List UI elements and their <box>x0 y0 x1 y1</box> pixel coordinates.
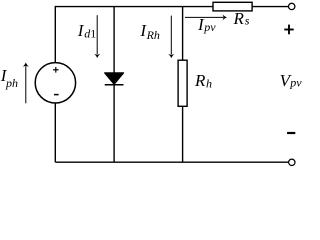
svg-text:ph: ph <box>5 76 18 90</box>
svg-text:pv: pv <box>203 20 216 34</box>
resistor Rs box <box>213 2 252 11</box>
svg-text:R: R <box>233 9 245 28</box>
svg-text:R: R <box>194 71 206 90</box>
wire Rh branch below box <box>182 106 184 162</box>
plus sign inside source <box>53 67 59 73</box>
label Ipv <box>197 15 216 34</box>
label Iph <box>0 66 18 90</box>
current source Iph circle <box>35 63 75 103</box>
diode D1 cathode bar <box>105 84 124 86</box>
resistor Rh box <box>178 60 187 106</box>
wire left vertical below source <box>54 103 56 162</box>
arrow Iph head <box>23 62 30 66</box>
terminal top-right <box>289 3 295 9</box>
svg-text:h: h <box>206 76 212 90</box>
svg-text:pv: pv <box>289 76 302 90</box>
arrow IRh head <box>168 54 175 58</box>
wire from Rs to top-right terminal <box>252 6 288 8</box>
label Rs <box>233 9 250 28</box>
plus sign output terminal <box>284 25 293 35</box>
arrow Ipv head <box>223 14 227 21</box>
minus sign output terminal <box>287 132 295 134</box>
svg-text:d1: d1 <box>84 27 96 41</box>
label IRh <box>139 21 160 42</box>
arrow Id1 head <box>94 54 101 58</box>
svg-text:Rh: Rh <box>146 28 160 42</box>
arrow IRh (down) line <box>170 16 172 55</box>
arrow Ipv (right) line <box>185 16 223 18</box>
label Rh <box>194 71 212 90</box>
label Vpv <box>280 71 303 90</box>
arrow Id1 (down) line <box>96 15 98 54</box>
wire Rh branch above box <box>182 7 184 61</box>
wire top from left corner to Rs <box>55 6 213 8</box>
diode D1 triangle <box>105 73 124 84</box>
wire left vertical above source <box>54 6 56 63</box>
terminal bottom-right <box>289 159 295 165</box>
label Id1 <box>77 21 96 40</box>
wire diode branch vertical <box>113 7 115 163</box>
minus sign inside source <box>54 94 59 96</box>
arrow Iph (up) line <box>25 66 27 103</box>
svg-text:s: s <box>245 14 250 28</box>
wire bottom from left corner to bottom-right terminal <box>55 161 288 163</box>
